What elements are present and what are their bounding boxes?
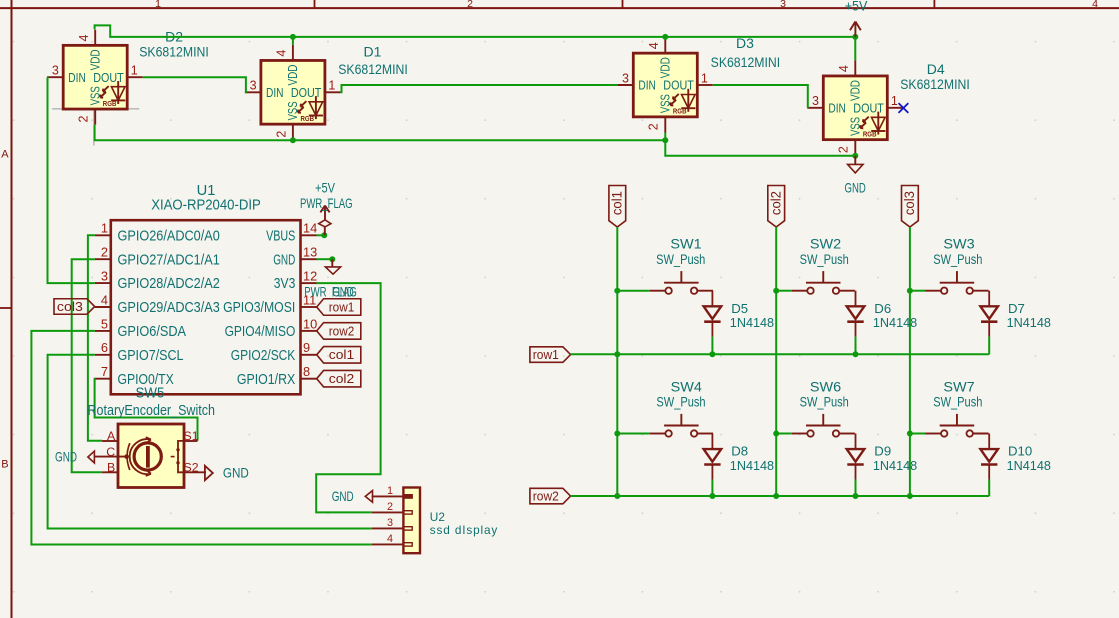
- net label col2: [768, 186, 785, 228]
- U1 pin 1 GPIO26/ADC0/A0: [95, 234, 111, 236]
- svg-text:GPIO26/ADC0/A0: GPIO26/ADC0/A0: [118, 228, 220, 244]
- svg-text:GPIO6/SDA: GPIO6/SDA: [118, 324, 187, 340]
- svg-text:4: 4: [647, 42, 661, 49]
- wire col3 vertical: [909, 227, 911, 496]
- ground symbol GND below D4: [848, 156, 863, 173]
- switch SW4 SW_Push: [617, 414, 713, 437]
- svg-text:SW1: SW1: [670, 236, 702, 252]
- svg-text:DOUT: DOUT: [663, 78, 694, 93]
- svg-text:GPIO7/SCL: GPIO7/SCL: [118, 348, 184, 364]
- svg-text:VDD: VDD: [658, 57, 673, 78]
- svg-text:SW_Push: SW_Push: [656, 251, 705, 267]
- svg-text:row2: row2: [329, 323, 355, 338]
- switch SW6 SW_Push: [776, 414, 855, 437]
- svg-text:GPIO2/SCK: GPIO2/SCK: [231, 348, 296, 364]
- U1 pin 3 GPIO28/ADC2/A2: [95, 282, 111, 284]
- diode D5 1N4148: [704, 291, 722, 337]
- svg-text:U2: U2: [430, 510, 445, 524]
- svg-text:7: 7: [101, 364, 108, 379]
- svg-text:B: B: [107, 461, 115, 475]
- switch SW2 SW_Push: [776, 271, 855, 294]
- svg-text:S2: S2: [184, 461, 199, 475]
- svg-text:2: 2: [387, 501, 393, 513]
- svg-text:10: 10: [303, 316, 317, 331]
- svg-text:SW_Push: SW_Push: [933, 251, 982, 267]
- U1 pin 2 GPIO27/ADC1/A1: [95, 258, 111, 260]
- diode D7 1N4148: [980, 291, 998, 337]
- svg-text:+5V: +5V: [315, 180, 336, 196]
- wire GPIO26 pin1 to encoder A: [88, 235, 102, 440]
- svg-text:1: 1: [101, 221, 108, 236]
- svg-text:row1: row1: [533, 347, 559, 362]
- svg-text:B: B: [1, 459, 8, 471]
- junction at (776.2,433.5): [773, 431, 779, 437]
- svg-text:1N4148: 1N4148: [1007, 315, 1051, 330]
- IC U1 XIAO-RP2040-DIP: [95, 220, 317, 394]
- svg-text:GND: GND: [273, 252, 295, 268]
- svg-text:C: C: [106, 445, 115, 459]
- net label row2: [530, 488, 571, 504]
- junction at D4 VDD / +5V: [852, 34, 858, 40]
- svg-text:6: 6: [101, 340, 108, 355]
- svg-text:D10: D10: [1008, 444, 1032, 459]
- diode D10 1N4148: [980, 434, 998, 480]
- junction at VBUS: [321, 232, 327, 238]
- svg-text:D7: D7: [1008, 301, 1025, 316]
- U1 pin 12 3V3: [301, 282, 317, 284]
- svg-text:SW2: SW2: [810, 236, 842, 252]
- svg-text:3: 3: [387, 517, 393, 529]
- junction at (617.3,354.3): [614, 351, 620, 357]
- svg-text:row1: row1: [329, 299, 355, 314]
- svg-text:U1: U1: [197, 183, 216, 199]
- net label col2: [317, 370, 361, 387]
- svg-text:DIN: DIN: [68, 70, 86, 85]
- svg-text:D5: D5: [731, 301, 748, 316]
- svg-text:GPIO3/MOSI: GPIO3/MOSI: [223, 300, 295, 316]
- junction at (617.3,496): [614, 493, 620, 499]
- svg-text:1N4148: 1N4148: [730, 458, 774, 473]
- LED D1 SK6812MINI: [245, 45, 341, 140]
- svg-text:2: 2: [101, 245, 108, 260]
- junction at (909.9,433.5): [907, 431, 913, 437]
- svg-text:GND: GND: [55, 449, 77, 465]
- U1 pin 9 GPIO2/SCK: [301, 354, 317, 356]
- junction at (776.2,496): [773, 493, 779, 499]
- svg-text:GPIO28/ADC2/A2: GPIO28/ADC2/A2: [118, 276, 220, 292]
- svg-text:4: 4: [837, 65, 851, 72]
- wire row2 horizontal: [571, 495, 990, 497]
- wire D6 to row: [855, 337, 857, 355]
- net label row2: [317, 323, 361, 340]
- svg-text:col2: col2: [329, 371, 355, 386]
- svg-text:3: 3: [622, 71, 629, 85]
- svg-text:VBUS: VBUS: [266, 228, 295, 244]
- wire col2 vertical: [775, 227, 777, 496]
- svg-text:4: 4: [387, 533, 393, 545]
- no-connect X at D4 DOUT: [899, 103, 909, 113]
- wire GPIO6/SDA pin5 to U2 pin4: [31, 331, 371, 545]
- switch SW7 SW_Push: [910, 414, 989, 437]
- editor crosshair marker: [52, 108, 139, 110]
- wire D4 VDD drop: [854, 37, 856, 60]
- junction at (855.5,496): [853, 493, 859, 499]
- svg-text:1N4148: 1N4148: [1007, 458, 1051, 473]
- wire D7 to row: [988, 337, 990, 355]
- svg-text:SK6812MINI: SK6812MINI: [139, 44, 209, 60]
- rotary encoder SW5: [94, 424, 206, 488]
- junction at GND pin13: [329, 256, 335, 262]
- junction at D1 VSS: [290, 137, 296, 143]
- junction at (617.3,433.5): [614, 431, 620, 437]
- svg-text:VDD: VDD: [848, 80, 863, 101]
- svg-text:D1: D1: [364, 44, 382, 60]
- svg-text:SK6812MINI: SK6812MINI: [711, 54, 781, 70]
- svg-text:SW_Push: SW_Push: [800, 394, 849, 410]
- net label col1: [317, 347, 361, 364]
- svg-text:D4: D4: [927, 61, 945, 77]
- diode D8 1N4148: [704, 434, 722, 480]
- svg-text:1: 1: [891, 94, 898, 108]
- svg-text:GPIO4/MISO: GPIO4/MISO: [225, 324, 296, 340]
- U1 pin 5 GPIO6/SDA: [95, 330, 111, 332]
- svg-text:2: 2: [467, 0, 473, 10]
- svg-text:D9: D9: [874, 444, 891, 459]
- wire D9 to row: [855, 480, 857, 497]
- svg-text:col1: col1: [610, 191, 625, 215]
- U1 pin 4 GPIO29/ADC3/A3: [95, 306, 111, 308]
- svg-text:PWR_FLAG: PWR_FLAG: [300, 195, 353, 211]
- svg-text:5: 5: [101, 316, 108, 331]
- wire VBUS pin14 to +5V/PWR_FLAG: [317, 234, 325, 236]
- svg-text:DIN: DIN: [828, 100, 846, 115]
- svg-text:A: A: [107, 429, 116, 443]
- wire GPIO7/SCL pin6 to U2 pin3: [48, 355, 372, 529]
- svg-text:3: 3: [780, 0, 786, 10]
- junction at (909.9,496): [907, 493, 913, 499]
- wire D10 to row: [988, 480, 990, 497]
- svg-text:1: 1: [131, 64, 138, 78]
- U2 pin 4: [372, 543, 404, 545]
- junction at D4 VSS / GND: [852, 153, 858, 159]
- LED D4 SK6812MINI: [807, 60, 903, 155]
- wire col1 vertical: [616, 227, 618, 496]
- svg-text:GPIO29/ADC3/A3: GPIO29/ADC3/A3: [118, 300, 220, 316]
- svg-text:DIN: DIN: [266, 85, 284, 100]
- U1 pin 11 GPIO3/MOSI: [301, 306, 317, 308]
- junction at (855.5,354.3): [853, 351, 859, 357]
- svg-text:1N4148: 1N4148: [730, 315, 774, 330]
- svg-text:XIAO-RP2040-DIP: XIAO-RP2040-DIP: [151, 197, 261, 213]
- U1 pin 10 GPIO4/MISO: [301, 330, 317, 332]
- svg-text:+5V: +5V: [845, 0, 868, 13]
- svg-text:row2: row2: [533, 489, 559, 504]
- svg-text:col2: col2: [769, 191, 784, 215]
- svg-text:D6: D6: [874, 301, 891, 316]
- junction at D1 VDD: [290, 34, 296, 40]
- junction at (617.3,290.7): [614, 288, 620, 294]
- net label col3: [54, 299, 95, 315]
- U1 pin 6 GPIO7/SCL: [95, 354, 111, 356]
- svg-text:1N4148: 1N4148: [873, 458, 917, 473]
- svg-text:SW_Push: SW_Push: [656, 394, 705, 410]
- net label col3: [902, 186, 919, 228]
- wire D2 DOUT to D1 DIN: [143, 77, 246, 92]
- wire VSS bus D3 to D4: [665, 140, 855, 156]
- svg-text:1: 1: [701, 71, 708, 85]
- svg-text:1: 1: [328, 79, 335, 93]
- svg-text:9: 9: [303, 340, 310, 355]
- svg-text:RGB: RGB: [103, 99, 117, 108]
- svg-text:RotaryEncoder_Switch: RotaryEncoder_Switch: [88, 403, 216, 419]
- svg-text:2: 2: [77, 115, 91, 122]
- U1 pin 8 GPIO1/RX: [301, 378, 317, 380]
- svg-text:1: 1: [387, 485, 393, 497]
- wire D1 VDD drop: [292, 37, 294, 45]
- svg-text:SW4: SW4: [671, 379, 703, 395]
- svg-text:SK6812MINI: SK6812MINI: [900, 76, 970, 92]
- svg-text:2: 2: [647, 123, 661, 130]
- svg-text:3: 3: [812, 94, 819, 108]
- svg-text:GND: GND: [845, 180, 866, 196]
- wire D8 to row: [711, 480, 713, 497]
- svg-text:3: 3: [101, 269, 108, 284]
- U1 pin 14 VBUS: [301, 234, 317, 236]
- svg-text:col1: col1: [329, 347, 355, 362]
- svg-text:3V3: 3V3: [274, 276, 296, 292]
- svg-text:4: 4: [275, 50, 289, 57]
- svg-text:RGB: RGB: [673, 107, 687, 116]
- wire D5 to row: [711, 337, 713, 355]
- wire GPIO27 pin2 to encoder B: [72, 259, 102, 472]
- svg-text:DOUT: DOUT: [93, 70, 124, 85]
- wire D1 DOUT to D3 DIN: [340, 85, 617, 92]
- U2 pin 3: [372, 527, 404, 529]
- wire 3V3 pin12 to U2 pin2: [316, 283, 380, 512]
- svg-text:2: 2: [274, 131, 288, 138]
- svg-text:12: 12: [303, 269, 317, 284]
- U2 pin 1: [372, 495, 404, 497]
- wire D3 VSS drop: [664, 133, 666, 141]
- svg-text:GND: GND: [223, 465, 249, 481]
- svg-text:SW_Push: SW_Push: [800, 251, 849, 267]
- svg-text:DOUT: DOUT: [853, 100, 884, 115]
- wire GND pin13: [317, 258, 333, 260]
- svg-text:3: 3: [250, 79, 257, 93]
- svg-text:ssd dIsplay: ssd dIsplay: [430, 523, 498, 537]
- LED D2 SK6812MINI: [47, 30, 143, 125]
- wire D3 DOUT to D4 DIN: [713, 85, 808, 108]
- U1 pin 7 GPIO0/TX: [95, 378, 111, 380]
- svg-text:4: 4: [77, 34, 91, 41]
- svg-text:4: 4: [101, 292, 108, 307]
- diode D6 1N4148: [847, 291, 865, 337]
- svg-text:1: 1: [155, 0, 161, 10]
- svg-text:GPIO1/RX: GPIO1/RX: [237, 372, 296, 388]
- svg-text:col3: col3: [57, 299, 83, 314]
- svg-text:4: 4: [1092, 0, 1098, 10]
- wire +5V bus from D2 VDD to D4 VDD: [95, 25, 856, 37]
- power symbol +5V at VBUS: [320, 206, 329, 220]
- svg-text:SK6812MINI: SK6812MINI: [338, 61, 408, 77]
- wire GPIO0/TX pin7 to encoder S1: [95, 379, 198, 441]
- svg-text:SW5: SW5: [136, 386, 165, 402]
- LED D3 SK6812MINI: [617, 38, 713, 133]
- svg-text:8: 8: [303, 364, 310, 379]
- net label row1: [317, 299, 361, 316]
- net label row1: [530, 347, 571, 363]
- svg-text:14: 14: [303, 221, 317, 236]
- svg-text:13: 13: [303, 245, 317, 260]
- svg-text:RGB: RGB: [301, 114, 315, 123]
- junction at (712.4,496): [709, 493, 715, 499]
- svg-text:SW6: SW6: [810, 379, 842, 395]
- junction at (909.9,290.7): [907, 288, 913, 294]
- svg-text:SW7: SW7: [943, 379, 975, 395]
- junction at D3 VDD: [662, 34, 668, 40]
- connector U2 ssd display: [372, 485, 420, 553]
- svg-text:A: A: [1, 149, 9, 161]
- power flag symbol PWR_FLAG at VBUS: [319, 220, 331, 235]
- svg-text:1N4148: 1N4148: [873, 315, 917, 330]
- U1 pin 13 GND: [301, 258, 317, 260]
- svg-text:DIN: DIN: [638, 78, 656, 93]
- svg-text:VDD: VDD: [88, 49, 103, 70]
- svg-text:SW_Push: SW_Push: [933, 394, 982, 410]
- junction at D3 VSS: [662, 137, 668, 143]
- power symbol +5V top: [850, 22, 861, 37]
- svg-text:3: 3: [52, 64, 59, 78]
- junction at (712.4,354.3): [709, 351, 715, 357]
- svg-text:GND: GND: [332, 488, 354, 504]
- junction at (776.2,290.7): [773, 288, 779, 294]
- switch SW1 SW_Push: [617, 271, 713, 294]
- svg-text:GPIO27/ADC1/A1: GPIO27/ADC1/A1: [118, 252, 220, 268]
- diode D9 1N4148: [847, 434, 865, 480]
- svg-text:2: 2: [837, 146, 851, 153]
- wire row1 horizontal: [571, 353, 990, 355]
- svg-text:SW3: SW3: [943, 236, 975, 252]
- ground symbol GND at encoder S2: [205, 466, 213, 480]
- ground symbol GND at U2 pin1: [365, 491, 372, 503]
- svg-text:RGB: RGB: [863, 129, 877, 138]
- switch SW3 SW_Push: [910, 271, 989, 294]
- svg-text:VDD: VDD: [285, 65, 300, 86]
- svg-text:GND: GND: [332, 284, 353, 300]
- wire D2 DIN to U1 GPIO28 (node to pin 3): [47, 77, 95, 283]
- wire D1 VSS drop: [292, 139, 294, 141]
- svg-text:S1: S1: [184, 429, 199, 443]
- ground symbol GND at encoder C: [88, 451, 95, 463]
- wire VSS bus D2-D1-D3: [95, 125, 666, 141]
- net label col1: [609, 186, 626, 228]
- svg-text:D8: D8: [731, 444, 748, 459]
- svg-text:DOUT: DOUT: [291, 85, 322, 100]
- svg-text:col3: col3: [902, 191, 917, 215]
- ground symbol GND at pin13: [325, 259, 340, 274]
- U2 pin 2: [372, 511, 404, 513]
